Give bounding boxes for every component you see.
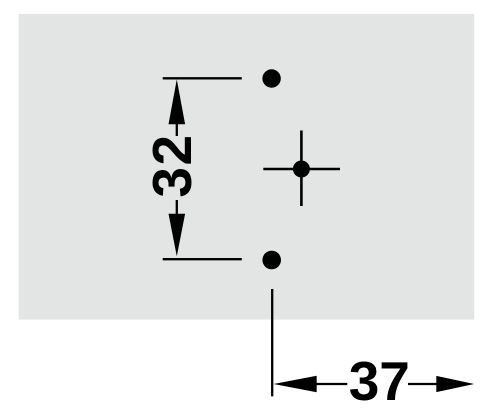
svg-text:32: 32	[141, 133, 203, 197]
dimension 37: right arrow	[436, 376, 474, 392]
extension line from bottom hole	[271, 289, 273, 396]
panel (gray mounting surface)	[19, 14, 475, 320]
dimension 37: left dimension line segment	[315, 383, 347, 385]
dimension 32: lower dimension line segment	[176, 200, 178, 215]
center cross: vertical line	[300, 131, 303, 207]
svg-text:37: 37	[349, 350, 410, 411]
center cross: hole dot	[293, 161, 310, 178]
dimension 32: up arrow	[169, 79, 186, 124]
dimension 32: bottom extension tick	[163, 258, 242, 260]
dimension 37: right dimension line segment	[408, 383, 438, 385]
dimension 37: left arrow	[274, 376, 317, 393]
dimension 32: upper dimension line segment	[176, 123, 178, 136]
hole bottom (screw hole)	[262, 251, 281, 270]
hole top (screw hole)	[262, 69, 280, 87]
center cross: horizontal line	[263, 168, 340, 171]
dimension 32: top extension tick	[163, 77, 242, 79]
dimension 32: down arrow	[169, 214, 186, 257]
